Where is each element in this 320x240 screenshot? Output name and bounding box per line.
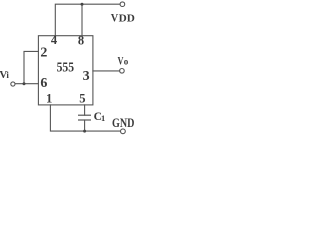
terminal VDD [120,2,125,7]
svg-text:555: 555 [57,61,74,76]
svg-text:5: 5 [79,91,85,105]
svg-text:o: o [124,57,129,67]
wire pin 1 to ground rail [50,105,120,131]
svg-text:i: i [6,70,9,80]
svg-text:2: 2 [40,45,47,60]
svg-text:DD: DD [119,13,135,24]
capacitor C1 plates [79,115,91,120]
terminal Vi [11,82,15,86]
svg-text:1: 1 [46,91,52,105]
wire Vi to pin 6 [15,83,38,85]
wire VDD rail [55,4,120,36]
svg-text:V: V [111,10,119,24]
svg-text:3: 3 [83,69,90,84]
IC U1 555 timer box [38,36,93,105]
junction dot C1 / ground rail [83,130,86,133]
svg-text:GND: GND [112,115,134,130]
label VDD [111,10,135,24]
label Vo [118,55,129,67]
capacitor C1 pin 5 lead [84,105,86,115]
svg-text:4: 4 [51,33,58,47]
svg-text:6: 6 [40,76,47,91]
terminal GND [121,129,126,134]
label Vi [0,69,9,81]
label C1 [94,111,106,123]
junction dot pin 8 / VDD rail [81,3,84,6]
wire branch Vi node to pin 2 [24,51,38,83]
svg-text:1: 1 [101,113,105,123]
capacitor C1 bottom lead [84,120,86,131]
terminal Vo [120,69,125,74]
junction dot Vi node [23,82,26,85]
svg-text:8: 8 [78,34,84,48]
wire pin 8 to VDD rail [81,4,83,36]
wire pin 3 to Vo [93,70,120,72]
